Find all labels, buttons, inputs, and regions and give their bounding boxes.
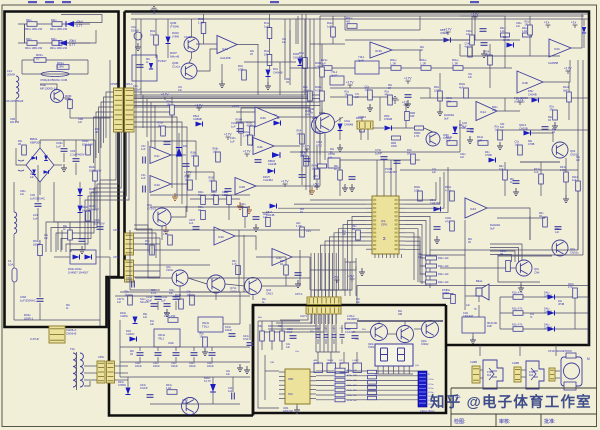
- svg-text:1uF: 1uF: [492, 109, 497, 112]
- svg-text:4.7T: 4.7T: [69, 43, 75, 47]
- svg-text:1uF: 1uF: [468, 77, 473, 79]
- svg-text:1uF: 1uF: [286, 347, 291, 349]
- svg-text:IC1d: IC1d: [480, 110, 486, 114]
- svg-text:CC0x: CC0x: [428, 392, 434, 394]
- svg-text:1uF: 1uF: [228, 390, 233, 393]
- svg-text:10R: 10R: [398, 314, 403, 316]
- svg-text:410R: 410R: [247, 125, 253, 128]
- svg-text:150R: 150R: [391, 145, 397, 148]
- svg-text:47uF: 47uF: [287, 331, 293, 334]
- svg-text:1.1R: 1.1R: [500, 30, 505, 33]
- svg-text:4uF: 4uF: [282, 42, 287, 44]
- svg-text:CC0x: CC0x: [428, 379, 434, 381]
- svg-text:R01x 1MR-1/W: R01x 1MR-1/W: [50, 28, 68, 31]
- svg-text:10k: 10k: [328, 155, 333, 159]
- svg-text:IC3C: IC3C: [218, 235, 224, 239]
- svg-text:100uF: 100uF: [189, 365, 196, 368]
- svg-text:CP1x: CP1x: [113, 228, 120, 232]
- svg-text:4uF: 4uF: [465, 46, 470, 49]
- svg-text:1R: 1R: [548, 119, 551, 122]
- svg-text:1uF: 1uF: [150, 324, 155, 326]
- svg-text:1uF: 1uF: [231, 124, 236, 128]
- svg-text:IC4b: IC4b: [260, 116, 266, 120]
- svg-text:检图:: 检图:: [454, 418, 465, 425]
- svg-text:CH04B: CH04B: [293, 55, 302, 59]
- svg-text:10R: 10R: [477, 138, 482, 142]
- svg-text:(Y84): (Y84): [172, 35, 179, 39]
- svg-text:3pW: 3pW: [358, 58, 364, 62]
- svg-text:CH4B: CH4B: [503, 39, 510, 42]
- svg-text:0dF: 0dF: [563, 88, 568, 92]
- svg-text:CH21: CH21: [230, 289, 237, 293]
- svg-text:C1013: C1013: [184, 35, 192, 39]
- svg-text:R01x 1MR-1/W: R01x 1MR-1/W: [25, 28, 43, 31]
- svg-text:1uF/F: 1uF/F: [375, 151, 382, 155]
- svg-text:CH4B: CH4B: [485, 154, 492, 157]
- svg-text:180R: 180R: [33, 242, 40, 246]
- svg-text:+5V: +5V: [306, 229, 311, 233]
- svg-text:1uF: 1uF: [466, 33, 471, 36]
- svg-text:1uF: 1uF: [209, 180, 214, 183]
- svg-text:CPMA: CPMA: [358, 115, 366, 119]
- svg-text:1uF: 1uF: [499, 168, 504, 171]
- svg-text:100uF: 100uF: [133, 87, 141, 91]
- svg-text:IC1a: IC1a: [222, 47, 228, 51]
- svg-text:UHB4B: UHB4B: [193, 117, 202, 121]
- svg-text:1.1R: 1.1R: [390, 61, 396, 65]
- svg-text:220-240V/50HZ: 220-240V/50HZ: [5, 99, 24, 103]
- svg-text:C04x: C04x: [169, 290, 175, 292]
- svg-text:DxF: DxF: [487, 375, 492, 377]
- svg-text:4R: 4R: [446, 292, 449, 295]
- svg-text:4700pF/250VAC C0M: 4700pF/250VAC C0M: [40, 78, 68, 82]
- svg-text:10A: 10A: [8, 263, 13, 267]
- svg-text:1R: 1R: [198, 209, 201, 212]
- svg-text:S1on: S1on: [140, 299, 146, 301]
- svg-text:2.2uF/400V: 2.2uF/400V: [70, 152, 85, 156]
- svg-text:1uF: 1uF: [226, 374, 231, 376]
- svg-text:1uF: 1uF: [263, 216, 268, 219]
- svg-text:LIGHT: LIGHT: [353, 360, 360, 362]
- svg-text:UA4558: UA4558: [548, 61, 559, 65]
- svg-text:1.1R: 1.1R: [420, 61, 426, 65]
- svg-text:CH04B: CH04B: [384, 118, 392, 121]
- svg-text:47uF/10T: 47uF/10T: [345, 331, 356, 334]
- svg-text:1uF: 1uF: [355, 97, 360, 99]
- svg-text:CPU: CPU: [381, 223, 387, 227]
- svg-text:1R: 1R: [407, 151, 410, 155]
- svg-text:1uF: 1uF: [470, 132, 475, 134]
- svg-text:1uF: 1uF: [143, 316, 148, 319]
- svg-text:47uF/F: 47uF/F: [140, 387, 148, 390]
- svg-text:1uF: 1uF: [460, 156, 465, 159]
- svg-text:1uF: 1uF: [466, 305, 471, 307]
- svg-text:1MF: 1MF: [487, 325, 492, 328]
- svg-text:+1x: +1x: [571, 21, 577, 25]
- svg-text:DxF: DxF: [529, 375, 534, 377]
- svg-text:CHE74B: CHE74B: [430, 201, 440, 205]
- svg-text:1R: 1R: [525, 24, 528, 27]
- svg-text:CHN4B: CHN4B: [273, 70, 283, 74]
- svg-text:审核:: 审核:: [499, 418, 510, 425]
- svg-text:CH06x: CH06x: [120, 314, 129, 318]
- svg-text:IC0b: IC0b: [522, 81, 528, 85]
- svg-text:R01x: R01x: [51, 38, 57, 41]
- svg-text:+5V: +5V: [313, 174, 318, 178]
- svg-text:1uF: 1uF: [240, 206, 245, 209]
- svg-text:1uF: 1uF: [365, 89, 370, 92]
- svg-text:10R: 10R: [270, 362, 274, 364]
- svg-text:+17V: +17V: [516, 98, 524, 102]
- svg-text:1 1R: 1 1R: [166, 387, 171, 390]
- svg-text:+17V: +17V: [404, 77, 412, 81]
- svg-text:10R: 10R: [410, 115, 415, 118]
- svg-text:1.3R: 1.3R: [452, 61, 458, 65]
- svg-text:CHN4B: CHN4B: [344, 122, 353, 126]
- svg-text:CH14B4: CH14B4: [263, 178, 273, 182]
- svg-text:1R: 1R: [280, 263, 283, 266]
- svg-text:R01x: R01x: [26, 19, 32, 22]
- svg-text:+17V: +17V: [281, 180, 289, 184]
- svg-text:BELL: BELL: [476, 279, 483, 283]
- svg-text:R0L: R0L: [420, 47, 425, 49]
- svg-text:471J: 471J: [316, 143, 322, 147]
- svg-text:C1x1x: C1x1x: [172, 65, 181, 69]
- svg-text:CP7A: CP7A: [295, 292, 302, 296]
- svg-text:1uF: 1uF: [189, 222, 194, 225]
- svg-text:1R: 1R: [388, 88, 391, 90]
- svg-text:100uF: 100uF: [207, 365, 214, 368]
- svg-text:IC34: IC34: [470, 207, 476, 211]
- svg-text:1uF: 1uF: [432, 172, 437, 174]
- svg-text:4 2R: 4 2R: [315, 88, 321, 92]
- svg-text:100uF: 100uF: [225, 329, 233, 332]
- svg-text:1uF: 1uF: [178, 90, 183, 92]
- svg-text:AIR: AIR: [314, 359, 318, 362]
- svg-text:R01x: R01x: [51, 19, 57, 22]
- svg-text:1uF: 1uF: [516, 25, 521, 28]
- svg-text:1R: 1R: [95, 131, 98, 134]
- svg-text:100uF: 100uF: [171, 365, 178, 368]
- svg-text:1uF: 1uF: [418, 257, 423, 259]
- svg-text:+17V: +17V: [161, 93, 169, 97]
- svg-text:1uF/250VAC: 1uF/250VAC: [30, 196, 45, 200]
- svg-text:1uF: 1uF: [446, 138, 451, 142]
- svg-text:+17V: +17V: [444, 28, 452, 32]
- svg-text:CH06C: CH06C: [126, 332, 135, 336]
- svg-text:TIMER: TIMER: [327, 360, 334, 362]
- svg-text:10R: 10R: [414, 188, 419, 192]
- svg-text:1.7k: 1.7k: [232, 263, 237, 266]
- svg-text:1N4007 1N4007: 1N4007 1N4007: [68, 270, 89, 274]
- svg-text:(TN04): (TN04): [170, 25, 179, 29]
- svg-text:10: 10: [36, 57, 40, 61]
- svg-text:1.8M: 1.8M: [57, 65, 64, 69]
- svg-text:78L1: 78L1: [158, 336, 165, 340]
- svg-text:R0L: R0L: [388, 85, 393, 87]
- svg-text:CH06C: CH06C: [118, 384, 126, 387]
- svg-text:4.7R: 4.7R: [414, 135, 419, 138]
- svg-text:SET: SET: [327, 363, 332, 365]
- svg-text:1uF: 1uF: [141, 147, 146, 151]
- svg-text:10R: 10R: [238, 67, 243, 71]
- svg-text:4R: 4R: [552, 132, 555, 134]
- svg-text:1R: 1R: [250, 54, 253, 56]
- svg-text:1 4R: 1 4R: [243, 133, 249, 137]
- svg-text:NHz+B: NHz+B: [170, 55, 179, 59]
- svg-text:+5V: +5V: [313, 183, 320, 187]
- svg-text:+17V: +17V: [195, 104, 203, 108]
- svg-text:12.7V: 12.7V: [204, 379, 211, 383]
- svg-text:KTRx: KTRx: [529, 372, 536, 374]
- svg-text:COIR: COIR: [314, 363, 320, 365]
- svg-text:1uF: 1uF: [534, 170, 539, 174]
- svg-text:4R: 4R: [300, 212, 303, 214]
- svg-text:1uF: 1uF: [185, 179, 190, 182]
- svg-text:CH6B: CH6B: [512, 361, 519, 365]
- svg-text:C2x: C2x: [332, 328, 336, 330]
- svg-text:C2x: C2x: [316, 328, 320, 330]
- svg-text:CHE4B: CHE4B: [544, 311, 552, 314]
- svg-text:+12V: +12V: [232, 104, 239, 108]
- svg-text:CH13: CH13: [266, 291, 273, 295]
- svg-text:1R: 1R: [420, 50, 423, 52]
- svg-text:R23x 10R: R23x 10R: [347, 400, 357, 402]
- svg-text:+5V: +5V: [348, 275, 355, 279]
- svg-text:C2x: C2x: [324, 328, 328, 330]
- svg-text:4.7T: 4.7T: [76, 24, 82, 28]
- svg-text:1R: 1R: [352, 228, 355, 231]
- svg-text:1R: 1R: [345, 94, 348, 97]
- svg-text:Σ: Σ: [383, 236, 386, 241]
- svg-text:DN: DN: [340, 363, 344, 365]
- svg-text:知乎 @电子体育工作室: 知乎 @电子体育工作室: [430, 393, 592, 411]
- svg-text:1uF: 1uF: [515, 144, 520, 147]
- svg-text:100uF: 100uF: [153, 365, 160, 368]
- svg-text:IC4D: IC4D: [239, 185, 245, 189]
- svg-text:4R: 4R: [500, 253, 503, 256]
- svg-text:1uF: 1uF: [327, 24, 332, 28]
- svg-text:100uF: 100uF: [131, 28, 139, 32]
- svg-text:IC2d: IC2d: [154, 183, 160, 187]
- svg-text:CP1A: CP1A: [125, 82, 133, 86]
- svg-text:CHE4B: CHE4B: [544, 295, 552, 298]
- svg-text:20MH: 20MH: [7, 73, 15, 77]
- svg-text:+17V: +17V: [564, 67, 572, 71]
- svg-text:1R: 1R: [468, 242, 471, 244]
- svg-text:UHE4B: UHE4B: [440, 32, 449, 35]
- svg-text:100uF: 100uF: [135, 365, 142, 368]
- svg-text:4uF: 4uF: [500, 126, 505, 129]
- svg-text:2R: 2R: [550, 109, 553, 112]
- svg-text:CN012: CN012: [421, 343, 429, 346]
- svg-text:1R: 1R: [130, 354, 133, 356]
- svg-text:47U: 47U: [445, 219, 450, 223]
- svg-text:D3x: D3x: [183, 144, 188, 148]
- svg-text:1uF: 1uF: [44, 238, 49, 240]
- svg-text:4/8: 4/8: [346, 19, 350, 23]
- svg-text:IC1b: IC1b: [554, 47, 560, 51]
- svg-text:R11x 1uF: R11x 1uF: [438, 257, 449, 260]
- svg-text:R11x 1uF: R11x 1uF: [438, 281, 449, 284]
- svg-text:Mps1: Mps1: [182, 402, 189, 405]
- svg-text:R11x 1uF: R11x 1uF: [438, 265, 449, 268]
- svg-text:1uF: 1uF: [264, 25, 269, 29]
- svg-text:R01x 1MR-1/W: R01x 1MR-1/W: [25, 47, 43, 50]
- svg-text:+17V: +17V: [346, 81, 354, 85]
- svg-text:1uF: 1uF: [30, 177, 35, 179]
- svg-text:1R: 1R: [264, 53, 268, 57]
- svg-text:1uF: 1uF: [78, 121, 83, 124]
- svg-text:HLK: HLK: [288, 393, 293, 396]
- svg-text:1uF: 1uF: [356, 302, 361, 304]
- svg-text:PC817: PC817: [158, 59, 167, 63]
- svg-text:C181x: C181x: [166, 269, 174, 272]
- svg-text:1uF: 1uF: [495, 129, 500, 132]
- svg-text:Ta0+1/B: Ta0+1/B: [140, 302, 149, 304]
- svg-text:1.7R: 1.7R: [296, 224, 302, 228]
- svg-text:J 4R: J 4R: [315, 64, 321, 68]
- svg-text:1k-1/W: 1k-1/W: [82, 208, 91, 212]
- svg-text:CH04B: CH04B: [528, 92, 537, 96]
- svg-text:4R: 4R: [385, 94, 388, 97]
- svg-text:7F: 7F: [474, 308, 477, 311]
- svg-text:1uF: 1uF: [117, 301, 122, 304]
- svg-text:R11x F.7k: R11x F.7k: [512, 308, 523, 311]
- svg-text:UP: UP: [340, 360, 344, 362]
- svg-text:1uF/250VAC: 1uF/250VAC: [20, 298, 36, 302]
- svg-text:CH14B: CH14B: [268, 162, 277, 166]
- svg-text:CC0x: CC0x: [428, 388, 434, 390]
- svg-text:CH6B: CH6B: [470, 360, 477, 364]
- svg-text:TDL1: TDL1: [202, 324, 209, 328]
- svg-text:1uF: 1uF: [576, 160, 581, 162]
- svg-text:批准:: 批准:: [544, 418, 555, 425]
- svg-text:1uF: 1uF: [572, 178, 577, 182]
- svg-text:1R: 1R: [167, 104, 170, 107]
- svg-text:C04x: C04x: [151, 290, 157, 292]
- svg-text:CH4B: CH4B: [459, 127, 466, 130]
- svg-text:UH4B: UH4B: [558, 304, 565, 306]
- svg-text:R01x 1MR-1/W: R01x 1MR-1/W: [50, 47, 68, 50]
- svg-text:2R: 2R: [18, 143, 21, 146]
- svg-text:1uF: 1uF: [56, 145, 61, 149]
- svg-text:CH4B: CH4B: [528, 143, 535, 146]
- svg-text:1uF: 1uF: [230, 139, 235, 143]
- svg-text:C4x: C4x: [308, 110, 314, 114]
- svg-text:10R: 10R: [434, 88, 439, 92]
- svg-text:2p1R: 2p1R: [331, 73, 337, 77]
- svg-text:KTRx: KTRx: [487, 372, 494, 374]
- svg-text:1uF: 1uF: [300, 153, 305, 157]
- svg-text:CN01x: CN01x: [570, 250, 579, 254]
- svg-text:CP0B: CP0B: [110, 82, 118, 86]
- svg-text:1uH: 1uH: [33, 217, 38, 221]
- svg-text:1.1R: 1.1R: [163, 233, 168, 236]
- svg-text:1.1R: 1.1R: [522, 30, 527, 33]
- svg-text:KBP206: KBP206: [30, 141, 41, 145]
- svg-text:1uF: 1uF: [191, 155, 196, 158]
- svg-text:0uF: 0uF: [490, 226, 495, 230]
- svg-text:+1x: +1x: [544, 21, 550, 25]
- svg-text:1uF: 1uF: [555, 231, 560, 234]
- svg-text:CP1D MAGNETRON: CP1D MAGNETRON: [548, 350, 572, 353]
- svg-text:a7R: a7R: [211, 194, 216, 197]
- svg-text:CHE4B: CHE4B: [544, 327, 552, 330]
- svg-text:VDD: VDD: [288, 378, 293, 381]
- svg-text:1uF: 1uF: [297, 133, 302, 136]
- svg-text:+17V: +17V: [243, 150, 251, 154]
- svg-text:HD231P: HD231P: [283, 409, 293, 413]
- svg-text:400-1/W: 400-1/W: [10, 121, 20, 124]
- svg-text:T0x: T0x: [70, 347, 75, 351]
- svg-text:47uF: 47uF: [151, 293, 157, 295]
- svg-text:M: M: [587, 357, 590, 361]
- svg-text:CH06-B: CH06-B: [66, 332, 76, 336]
- svg-text:0.47UF: 0.47UF: [30, 337, 39, 341]
- svg-text:62K-1/W: 62K-1/W: [82, 142, 93, 146]
- svg-text:CAP/F4T: CAP/F4T: [463, 315, 474, 318]
- svg-text:1uF: 1uF: [342, 234, 347, 236]
- svg-text:1uF: 1uF: [141, 176, 146, 180]
- svg-text:UA1458: UA1458: [220, 56, 231, 60]
- svg-text:1uF: 1uF: [213, 151, 218, 154]
- svg-text:IC4b: IC4b: [257, 145, 263, 149]
- svg-text:GND: GND: [168, 342, 174, 345]
- svg-text:R11x 1uF: R11x 1uF: [438, 273, 449, 276]
- svg-text:1uF: 1uF: [224, 194, 229, 197]
- svg-text:CP1x: CP1x: [113, 255, 120, 259]
- svg-text:0uF: 0uF: [444, 116, 449, 120]
- svg-text:4.7uF/16V: 4.7uF/16V: [385, 170, 397, 174]
- svg-text:3C3C: 3C3C: [375, 49, 382, 53]
- svg-text:+17V: +17V: [224, 133, 232, 137]
- svg-text:1R: 1R: [286, 81, 289, 84]
- svg-text:1uF: 1uF: [161, 298, 166, 302]
- svg-text:F.7k: F.7k: [568, 286, 573, 289]
- svg-text:1.1k: 1.1k: [198, 21, 204, 25]
- svg-text:1R: 1R: [200, 336, 203, 339]
- svg-text:+17V: +17V: [184, 171, 192, 175]
- svg-text:47uF: 47uF: [243, 338, 249, 341]
- svg-text:CC0x: CC0x: [428, 384, 434, 386]
- svg-text:CP0x: CP0x: [98, 355, 105, 359]
- svg-text:IC2c: IC2c: [154, 154, 160, 158]
- svg-text:1uF: 1uF: [169, 293, 174, 295]
- svg-text:4uF: 4uF: [459, 85, 464, 89]
- svg-text:CN4: CN4: [534, 270, 540, 274]
- svg-text:47U: 47U: [446, 99, 451, 103]
- svg-text:R01x: R01x: [26, 38, 32, 41]
- svg-text:R11x F.7k: R11x F.7k: [512, 324, 523, 327]
- svg-text:CH7x: CH7x: [300, 314, 308, 318]
- svg-text:1uF: 1uF: [20, 193, 25, 196]
- svg-text:C2x: C2x: [340, 328, 344, 330]
